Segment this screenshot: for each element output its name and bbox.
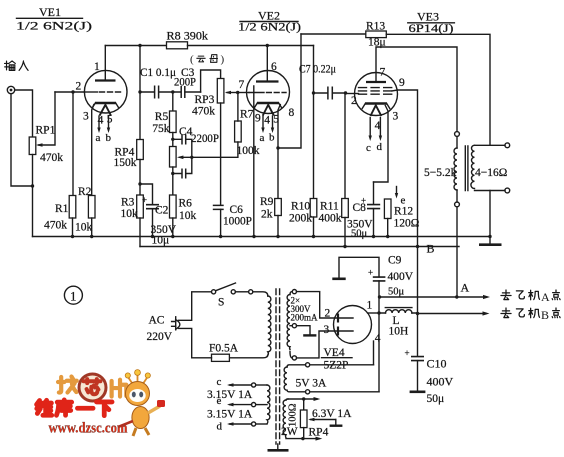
power transformer primary winding: [268, 296, 271, 355]
RP3 wiper arrow from VE2 grid node: [225, 91, 238, 95]
wire: feedback line to R13: [301, 33, 366, 35]
wire: R7 top to VE2 grid node, R7 bottom to wiper line: [237, 93, 239, 158]
watermark mascot: [118, 370, 165, 436]
svg-text:120Ω: 120Ω: [394, 218, 420, 230]
svg-text:C9: C9: [388, 255, 402, 267]
wire: C2 to ground rail: [152, 209, 154, 237]
svg-text:R5: R5: [155, 111, 169, 123]
wire: cathode to feedback riser: [278, 34, 301, 148]
wire: secondary bottom to ground rail: [489, 191, 491, 237]
circled figure number 1: [64, 286, 82, 304]
choke L 10H: [379, 308, 418, 338]
svg-text:4: 4: [375, 333, 381, 345]
tube VE2 title label: [238, 9, 301, 34]
wire: HV top to VE4 pin2: [297, 292, 339, 318]
wire: HV bottom to VE4 pin3: [297, 331, 339, 358]
wire: VE3 plate to OT primary: [376, 47, 457, 132]
wire: tone pot to R6: [172, 167, 174, 195]
heater reference arrow e: [395, 187, 406, 207]
svg-text:470k: 470k: [40, 152, 63, 164]
node A line to output: [378, 281, 490, 300]
svg-text:100k: 100k: [237, 145, 260, 157]
wire: R10 to ground rail: [313, 217, 315, 237]
wire: RP4 to R3: [139, 160, 141, 196]
svg-text:a: a: [96, 132, 101, 144]
PT 6.3V winding: [283, 399, 288, 438]
VE1 grid (dashed): [85, 91, 98, 93]
wire: VE1 plate node rail to R8: [105, 45, 166, 47]
wire: fuse to AC neutral: [179, 328, 212, 357]
VE1 cathode: [95, 102, 116, 105]
resistor R5: [152, 111, 176, 135]
svg-text:400V: 400V: [427, 375, 454, 389]
svg-text:F0.5A: F0.5A: [209, 343, 239, 355]
resistor R1: [44, 196, 76, 232]
svg-text:50μ: 50μ: [427, 393, 445, 405]
wire: VE3 screen pin9 to B+ rail: [392, 90, 418, 247]
svg-text:1000P: 1000P: [223, 216, 252, 228]
B+ rail: [140, 246, 459, 248]
wire: VE1 plate to top node: [104, 46, 106, 81]
tube VE1 title label: [16, 5, 92, 33]
wire: VE4 pin1 to choke: [368, 312, 379, 314]
svg-text:9: 9: [255, 113, 261, 125]
6.3V bottom lead with arrow: [286, 437, 322, 441]
VE1 plate: [95, 79, 116, 81]
svg-text:2200P: 2200P: [191, 133, 219, 145]
svg-text:R2: R2: [78, 186, 92, 198]
watermark 维库一下 (red): [37, 400, 112, 416]
wire: R13 to output transformer secondary: [386, 34, 490, 145]
wire: grid junction down to R1: [72, 92, 74, 196]
VE3 grid g1 (dashed): [359, 90, 393, 92]
capacitor C7: [299, 64, 346, 100]
watermark magnifier circle with 芯: [79, 374, 106, 401]
svg-text:470k: 470k: [192, 106, 215, 118]
tone potentiometer (unlabeled): [170, 147, 177, 168]
resistor R12: [384, 199, 419, 230]
VE1 heater lead b: [106, 116, 112, 144]
wire: input terminal shield to ground: [11, 94, 33, 186]
ground rail: [33, 236, 491, 238]
svg-text:S: S: [218, 297, 224, 309]
resistor R7: [235, 109, 260, 158]
wire: R9 to ground rail: [277, 216, 279, 237]
wire: RP1 wiper to VE1 grid: [36, 92, 55, 147]
core ground symbol: [268, 444, 289, 450]
tube VE3 (6P14 pentode): [351, 67, 405, 133]
svg-text:7: 7: [380, 67, 386, 79]
wire: R1 to ground rail: [72, 218, 74, 237]
svg-text:8: 8: [289, 107, 295, 119]
svg-text:C10: C10: [427, 357, 447, 371]
svg-text:10k: 10k: [75, 222, 93, 234]
capacitor C6: [213, 204, 252, 228]
watermark 找芯片 (orange): [58, 377, 126, 397]
svg-text:200P: 200P: [174, 77, 196, 89]
wire: grid node down to R11: [344, 93, 346, 199]
svg-text:+: +: [368, 268, 373, 278]
svg-text:b: b: [269, 132, 275, 144]
PT 5V winding: [284, 363, 327, 394]
svg-text:b: b: [106, 132, 112, 144]
svg-text:R9: R9: [260, 196, 274, 208]
svg-text:R1: R1: [55, 203, 69, 215]
ground symbol (right end of ground rail): [479, 235, 502, 245]
junction grid / R1: [71, 90, 74, 93]
svg-text:200k: 200k: [289, 213, 312, 225]
svg-text:C1 0.1μ: C1 0.1μ: [140, 67, 176, 79]
wire: tone pot wiper line to R7 bottom: [177, 156, 238, 160]
wire: C9 bottom / VE4 pin1 column: [378, 281, 380, 392]
svg-text:400V: 400V: [388, 271, 414, 283]
svg-text:6P14(J): 6P14(J): [409, 21, 454, 35]
svg-text:d: d: [217, 421, 223, 433]
svg-text:d: d: [377, 141, 383, 153]
svg-text:C8: C8: [353, 202, 367, 214]
capacitor C2 electrolytic: [140, 184, 177, 247]
svg-text:5V 3A: 5V 3A: [296, 378, 327, 390]
svg-text:3: 3: [83, 111, 89, 123]
wire: PT primary bottom to fuse: [229, 355, 267, 358]
svg-text:220V: 220V: [147, 331, 173, 343]
wire: C8 to ground rail: [373, 209, 375, 237]
svg-text:470k: 470k: [44, 220, 67, 232]
capacitor C3: [173, 67, 201, 98]
VE2 grid (dashed): [249, 92, 264, 94]
VE3 plate: [366, 81, 386, 83]
junction input shield / RP1 bottom: [31, 184, 34, 187]
svg-text:R10: R10: [291, 201, 310, 213]
potentiometer RP1: [29, 125, 63, 165]
VE2 heater: [263, 105, 274, 116]
wire: VE1 grid line: [55, 91, 85, 93]
svg-text:3: 3: [393, 111, 399, 123]
svg-text:10k: 10k: [179, 210, 197, 222]
3.15V lead d: [217, 421, 268, 433]
svg-text:a: a: [260, 132, 265, 144]
resistor R8: [167, 31, 209, 49]
wire: R11 to B+ rail: [344, 218, 346, 247]
wire: C6 to ground rail: [220, 209, 222, 236]
svg-text:A: A: [461, 281, 470, 295]
svg-text:+: +: [405, 348, 410, 358]
VE3 grid g2 (dashed): [359, 87, 393, 89]
wire: R2 to ground rail: [91, 218, 93, 237]
RP4 wiper to ground: [308, 418, 342, 426]
wire: VE2 plate to rail: [266, 46, 268, 82]
svg-text:3.15V 1A: 3.15V 1A: [207, 389, 253, 401]
resistor R3: [121, 195, 144, 220]
svg-text:A: A: [541, 290, 550, 304]
wire: C3 over to RP3 top: [201, 70, 221, 92]
wire: R8 to VE2 plate node: [188, 45, 314, 47]
VE2 heater lead b: [269, 116, 275, 144]
svg-text:RP4: RP4: [309, 427, 329, 439]
svg-text:3.15V 1A: 3.15V 1A: [207, 409, 253, 421]
wire: VE4 pin4 to 5V winding: [373, 341, 375, 365]
3.15V lead e: [217, 395, 268, 407]
svg-text:9: 9: [399, 77, 405, 89]
svg-text:B: B: [427, 242, 435, 256]
svg-text:2: 2: [76, 81, 82, 93]
svg-text:R6: R6: [179, 198, 193, 210]
svg-text:400k: 400k: [319, 213, 342, 225]
VE3 cathode: [365, 102, 387, 105]
potentiometer RP4 (150k preamp): [114, 140, 144, 170]
svg-text:3: 3: [324, 324, 330, 336]
svg-text:5: 5: [107, 114, 113, 126]
input terminal J1: [7, 86, 14, 93]
svg-text:1/2 6N2(J): 1/2 6N2(J): [238, 20, 301, 34]
wire: plate node down to C1/RP4: [139, 46, 141, 140]
potentiometer RP3: [192, 79, 224, 118]
svg-text:2W: 2W: [281, 426, 298, 438]
svg-text:VE1: VE1: [39, 5, 61, 19]
wire: R3 bottom to B+ rail: [139, 218, 141, 247]
wire: 5V top lead to VE4 pin4: [310, 364, 374, 366]
wire: VE1 cathode to R2: [92, 105, 94, 196]
output transformer secondary: [471, 143, 510, 193]
capacitor C9 electrolytic: [332, 255, 413, 298]
svg-text:R8 390k: R8 390k: [167, 31, 209, 43]
wire: junction down to R5: [172, 92, 174, 111]
6.3V top lead with arrow: [288, 397, 320, 401]
svg-text:6.3V 1A: 6.3V 1A: [312, 408, 352, 420]
svg-text:e: e: [401, 195, 406, 207]
svg-text:50μ: 50μ: [351, 229, 368, 240]
wire: R12 to ground rail: [387, 219, 389, 237]
wire: AC live to switch: [179, 292, 212, 321]
wire: plate rail down to R10: [313, 46, 315, 199]
svg-text:10H: 10H: [389, 326, 409, 338]
svg-text:C2: C2: [155, 205, 169, 217]
wire: RP1 bottom to ground rail: [32, 155, 34, 237]
VE3 heater: [370, 105, 381, 116]
capacitor C4: [173, 126, 219, 157]
wire: switch to PT primary: [253, 292, 268, 296]
resistor R2: [75, 186, 95, 234]
resistor R11: [319, 199, 349, 225]
svg-text:C7 0.22μ: C7 0.22μ: [299, 64, 336, 76]
resistor R10: [289, 199, 317, 225]
VE4 plate pin3 electrode: [337, 327, 339, 336]
svg-text:2k: 2k: [261, 209, 273, 221]
svg-text:B: B: [541, 308, 549, 322]
svg-text:1: 1: [70, 289, 77, 304]
svg-text:50μ: 50μ: [388, 287, 405, 298]
svg-text:R3: R3: [121, 197, 135, 209]
wire: B+ rail down to choke output: [417, 247, 419, 314]
wire: 5V bottom lead to pin1 column: [310, 391, 379, 393]
tube VE3 title label: [408, 10, 455, 36]
label 去乙机A点: [501, 290, 560, 304]
svg-text:): ): [221, 54, 225, 66]
svg-text:www.dzsc.com: www.dzsc.com: [49, 421, 128, 437]
svg-text:1: 1: [94, 61, 100, 73]
svg-text:R11: R11: [320, 201, 339, 213]
fuse F0.5A: [209, 343, 239, 362]
VE1 heater lead a: [96, 116, 101, 144]
label 输入 (input): [5, 61, 29, 70]
svg-text:R13: R13: [366, 21, 385, 33]
tube VE1 (1/2 6N2): [76, 61, 127, 127]
wire: RP3 bottom down to C6: [220, 103, 222, 205]
svg-text:4: 4: [264, 115, 270, 127]
VE4 plate pin2 electrode: [337, 314, 339, 323]
svg-text:RP3: RP3: [195, 94, 215, 106]
svg-text:2: 2: [351, 95, 357, 107]
VE2 cathode: [257, 102, 279, 105]
wire: OT primary bottom down to node A line: [456, 207, 458, 297]
tube VE2 (1/2 6N2): [239, 61, 295, 127]
svg-text:C6: C6: [230, 204, 244, 216]
svg-text:6: 6: [271, 61, 277, 73]
svg-text:c: c: [366, 142, 371, 154]
wire: input terminal to RP1 top: [15, 90, 33, 137]
wire: R6 to ground rail: [172, 218, 174, 237]
HV center tap to ground: [297, 326, 317, 336]
resistor R13: [366, 21, 387, 49]
junction C1/C3/R5: [171, 90, 174, 93]
VE4 title label: [322, 347, 353, 372]
output transformer core: [465, 146, 468, 191]
svg-text:5−5.2k: 5−5.2k: [424, 167, 457, 179]
svg-text:1: 1: [367, 300, 373, 312]
junction C7 / R11 / VE3 grid: [344, 91, 347, 94]
PT HV secondary winding 2x300V: [287, 290, 318, 361]
VE2 heater lead a: [260, 116, 265, 144]
svg-text:c: c: [217, 376, 222, 388]
hum-balance potentiometer RP4 (100 ohm 2W): [281, 399, 329, 439]
svg-text:AC: AC: [149, 315, 165, 327]
VE3 heater lead d: [377, 118, 383, 154]
wire: VE2 pin9 shield to ground: [253, 86, 255, 237]
3.15V lead c: [217, 376, 268, 388]
wire: VE2 cathode pin8 down: [278, 105, 280, 199]
wire: VE2 grid line: [238, 92, 249, 94]
PT 3.15V heater windings: [267, 385, 270, 424]
capacitor C1: [140, 67, 176, 99]
capacitor C8 electrolytic: [347, 182, 380, 240]
svg-text:1/2 6N2(J): 1/2 6N2(J): [16, 19, 92, 33]
svg-text:7: 7: [239, 79, 245, 91]
output transformer T2 primary: [424, 132, 459, 207]
node B line to output: [416, 311, 490, 315]
switch S: [212, 283, 253, 309]
wire: R5 to tone pot: [172, 133, 174, 147]
wire: C7 to VE3 grid: [346, 93, 359, 95]
svg-text:150k: 150k: [114, 157, 137, 169]
svg-text:75k: 75k: [152, 123, 170, 135]
resistor R9: [260, 196, 281, 221]
AC plug: [147, 315, 180, 344]
rectifier tube VE4 5Z2P: [324, 300, 381, 345]
svg-text:4−16Ω: 4−16Ω: [475, 167, 507, 179]
svg-text:+: +: [142, 195, 147, 205]
svg-text:100Ω: 100Ω: [288, 403, 299, 427]
svg-text:RP1: RP1: [36, 125, 56, 137]
label (云母) mica: [190, 54, 225, 66]
resistor R6: [170, 195, 197, 222]
label 去乙机B点: [501, 308, 560, 322]
svg-text:e: e: [217, 395, 222, 407]
wire: VE3 cathode to C8/R12 node: [374, 106, 389, 183]
capacitor C5 (lower, unlabeled): [173, 157, 192, 178]
svg-text:R12: R12: [394, 206, 413, 218]
VE1 heater: [100, 105, 111, 116]
junction pin1/choke/C9: [377, 311, 380, 314]
VE3 heater lead c: [366, 118, 372, 155]
svg-text:(: (: [190, 54, 194, 66]
capacitor C10 electrolytic: [405, 314, 454, 406]
power transformer core (laminations): [275, 289, 277, 444]
svg-text:200mA: 200mA: [291, 313, 319, 323]
svg-text:R7: R7: [240, 109, 254, 121]
svg-text:10k: 10k: [121, 208, 139, 220]
VE2 plate: [256, 80, 279, 82]
